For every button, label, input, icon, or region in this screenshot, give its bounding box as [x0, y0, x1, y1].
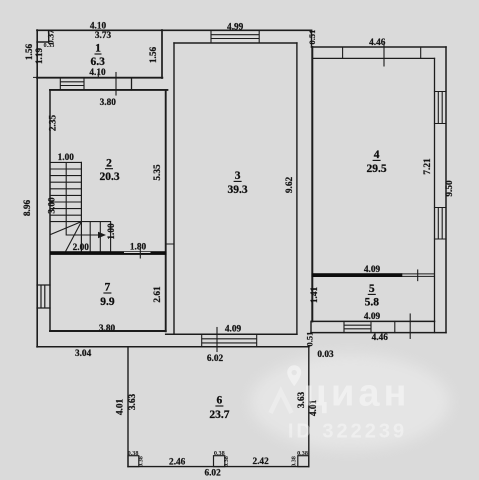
thick wall rooms4/5 [312, 273, 403, 277]
room 2 top wall [50, 89, 167, 91]
watermark haze [250, 354, 450, 450]
svg-text:3.73: 3.73 [95, 31, 112, 41]
svg-text:3: 3 [235, 170, 241, 182]
svg-text:3.80: 3.80 [99, 324, 116, 334]
niche in room 1 [37, 31, 49, 43]
svg-text:0.33: 0.33 [44, 42, 55, 49]
rooms 4/5 left wall [311, 47, 313, 321]
svg-text:6.3: 6.3 [91, 56, 106, 68]
svg-text:1.56: 1.56 [149, 47, 159, 64]
svg-text:39.3: 39.3 [228, 184, 248, 196]
window room4 right wall lower [435, 208, 447, 240]
tick thick wall B [417, 270, 419, 281]
svg-text:1.00: 1.00 [107, 223, 117, 240]
svg-text:8.96: 8.96 [23, 200, 33, 217]
stairs arrow head [98, 232, 106, 238]
ticks room4 top [343, 42, 421, 66]
svg-text:4.46: 4.46 [369, 38, 386, 48]
dimension ticks room1 bottom [115, 73, 117, 96]
svg-text:циан: циан [304, 373, 411, 415]
window room4 right wall upper [435, 92, 447, 124]
window room1-bottom [60, 78, 84, 90]
svg-text:3.63: 3.63 [128, 394, 138, 411]
room 5 bottom wall [312, 320, 435, 322]
room 3 bottom wall [166, 333, 297, 335]
svg-text:1.41: 1.41 [310, 287, 320, 304]
svg-text:0.38: 0.38 [291, 456, 298, 467]
svg-text:9.62: 9.62 [285, 177, 295, 194]
terrace right wall [308, 347, 310, 467]
svg-text:ID 322239: ID 322239 [288, 421, 407, 443]
svg-text:3.00: 3.00 [47, 197, 57, 214]
svg-text:2: 2 [106, 157, 112, 169]
window room5 bottom [344, 321, 371, 332]
room 3 inner left wall [173, 43, 175, 334]
connector room3/room4 top [311, 30, 313, 47]
svg-text:1.19: 1.19 [35, 48, 45, 65]
svg-text:23.7: 23.7 [209, 409, 229, 421]
tick thick wall A [139, 249, 141, 259]
svg-text:2.42: 2.42 [252, 457, 269, 467]
room 3 right wall [296, 43, 298, 334]
room 7 bottom wall [50, 330, 166, 332]
svg-text:6.02: 6.02 [207, 354, 224, 364]
svg-text:0.38: 0.38 [223, 456, 230, 467]
window room3 top [211, 30, 259, 43]
svg-text:0.38: 0.38 [214, 450, 225, 457]
outer wall under room 5 [311, 332, 446, 334]
room 1 bottom wall [37, 77, 162, 79]
svg-text:4: 4 [374, 149, 380, 161]
svg-text:5.35: 5.35 [153, 164, 163, 181]
svg-text:1.00: 1.00 [58, 153, 75, 163]
svg-text:1: 1 [95, 42, 101, 54]
window left wall [37, 285, 50, 308]
room 3 inner top wall [174, 42, 297, 44]
svg-text:0.38: 0.38 [297, 450, 308, 457]
opening right of thick wall B [402, 274, 434, 277]
svg-text:2.61: 2.61 [153, 286, 163, 303]
svg-text:4.09: 4.09 [364, 312, 381, 322]
svg-text:9.9: 9.9 [100, 296, 115, 308]
svg-text:4.09: 4.09 [364, 265, 381, 275]
room 4 inner right wall [434, 58, 436, 332]
outer top wall (rooms 1 and 3) [37, 29, 312, 31]
svg-text:2.46: 2.46 [169, 457, 186, 467]
outer bottom wall left part [37, 346, 309, 348]
thick wall rooms2/7 [50, 251, 167, 255]
outer left wall [36, 30, 38, 347]
svg-text:5: 5 [369, 283, 375, 295]
svg-text:7: 7 [105, 282, 111, 294]
stairs center line [66, 163, 99, 235]
svg-text:0.51: 0.51 [305, 332, 315, 347]
stairs winder box [51, 222, 111, 252]
svg-text:4.10: 4.10 [89, 68, 106, 78]
svg-text:20.3: 20.3 [99, 171, 119, 183]
svg-text:29.5: 29.5 [367, 163, 387, 175]
svg-text:2.00: 2.00 [73, 243, 90, 253]
opening slit in thick wall [124, 252, 151, 253]
rooms 2/7 right wall [165, 90, 167, 331]
terrace left wall [127, 347, 129, 467]
stairs right edge [80, 162, 82, 251]
room 4 outer right wall [445, 47, 447, 333]
svg-text:3.04: 3.04 [75, 349, 92, 359]
tick wall double 1.80 [166, 243, 174, 245]
svg-text:4.99: 4.99 [227, 22, 244, 32]
svg-text:3.80: 3.80 [100, 98, 117, 108]
terrace post center [214, 456, 225, 467]
stairs upper flight [51, 162, 82, 215]
door jamb room1/2 [131, 78, 133, 90]
room 4 inner top wall [313, 57, 435, 59]
left wall tick at room1 bottom [34, 76, 38, 78]
svg-text:0.51: 0.51 [307, 30, 317, 45]
terrace post right [298, 456, 309, 467]
svg-text:6: 6 [217, 395, 223, 407]
svg-text:2.35: 2.35 [49, 115, 59, 132]
jambs room5 bottom [394, 321, 396, 332]
svg-text:6.02: 6.02 [204, 469, 221, 479]
svg-text:0.38: 0.38 [128, 450, 139, 457]
svg-text:4.01: 4.01 [115, 399, 125, 416]
room 2/7 left inner wall [49, 90, 51, 331]
connector room5 corner [310, 321, 312, 332]
room 4 outer top wall [312, 46, 447, 48]
svg-text:1.80: 1.80 [130, 242, 147, 252]
svg-text:0.03: 0.03 [317, 350, 334, 360]
svg-text:4.10: 4.10 [90, 21, 107, 31]
svg-text:1.56: 1.56 [25, 44, 35, 61]
watermark pin icon [287, 365, 301, 386]
stairs winder diagonals [51, 222, 82, 251]
svg-text:4.09: 4.09 [225, 325, 242, 335]
svg-text:4.46: 4.46 [372, 333, 389, 343]
svg-text:5.8: 5.8 [365, 297, 380, 309]
tick room3 bottom [216, 328, 218, 352]
room 1 right wall [161, 30, 163, 78]
watermark [271, 365, 411, 442]
svg-text:0.38: 0.38 [138, 456, 145, 467]
svg-text:9.50: 9.50 [445, 180, 455, 197]
terrace post left [128, 456, 139, 467]
svg-text:7.21: 7.21 [423, 158, 433, 175]
watermark chevron glyph [271, 392, 292, 414]
terrace bottom wall [128, 466, 309, 468]
window room3 bottom [202, 334, 257, 347]
